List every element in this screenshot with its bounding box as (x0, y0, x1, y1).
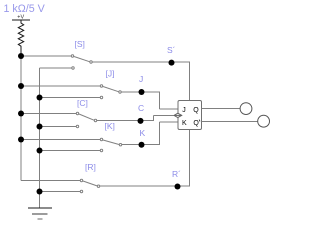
wire rail A (+V rail x=21) (20, 53, 22, 181)
svg-text:Q: Q (193, 107, 199, 114)
flip-flop clock diamond (174, 113, 182, 117)
wire C common to flip-flop clock (97, 116, 174, 121)
node: rail B junction J (37, 95, 43, 101)
wire K common to flip-flop K input (122, 122, 178, 145)
switch R blade (80, 179, 99, 192)
svg-text:K: K (182, 120, 187, 127)
svg-text:+V: +V (17, 14, 24, 20)
switch C blade (76, 112, 96, 127)
svg-text:C: C (138, 103, 144, 113)
svg-text:R´: R´ (172, 169, 181, 179)
probe Q (indicator circle) (240, 103, 252, 115)
node J (139, 89, 145, 95)
switch R upper wire (from rail A corner) (21, 180, 80, 182)
node C (138, 118, 144, 124)
switch C upper wire (21, 113, 76, 115)
switch K upper wire (21, 139, 100, 141)
wire rail B (ground rail x=39.5) (39, 68, 41, 208)
switch K lower wire (40, 150, 101, 152)
power +V supply (12, 19, 30, 21)
svg-text:J: J (139, 74, 143, 84)
svg-text:1 kΩ/5 V: 1 kΩ/5 V (4, 3, 46, 15)
switch J blade (100, 85, 121, 99)
svg-text:Q: Q (193, 120, 199, 127)
node: rail A junction C (18, 111, 24, 117)
switch S blade (71, 55, 92, 69)
switch S upper wire (21, 55, 71, 57)
svg-text:[J]: [J] (106, 69, 115, 79)
wire J common to flip-flop J input (122, 92, 179, 109)
svg-text:[K]: [K] (105, 121, 115, 131)
resistor R1 1kOhm (18, 20, 23, 53)
switch K blade (100, 138, 121, 151)
flip-flop U1 JK box (178, 101, 202, 130)
wire Q output (202, 108, 241, 110)
wire S common to S' node (93, 62, 191, 101)
node R' (175, 184, 181, 190)
node K (139, 142, 145, 148)
svg-text:S´: S´ (167, 45, 176, 55)
node: rail A junction S (18, 53, 24, 59)
svg-text:J: J (182, 107, 186, 114)
node S' (169, 60, 175, 66)
wire Q' output (202, 120, 258, 122)
switch S lower wire (40, 67, 72, 69)
ground (28, 208, 52, 219)
switch J lower wire (40, 97, 101, 99)
switch J upper wire (21, 85, 100, 87)
node: rail A junction J (18, 83, 24, 89)
node: rail A junction K (18, 137, 24, 143)
probe Q' (indicator circle) (258, 115, 270, 127)
svg-text:K: K (140, 128, 146, 138)
svg-text:[C]: [C] (77, 98, 88, 108)
node: rail B junction K (37, 148, 43, 154)
switch C lower wire (40, 126, 77, 128)
wire R common to R' node and flip-flop reset (100, 130, 190, 187)
switch R lower wire (40, 191, 81, 193)
svg-text:[S]: [S] (75, 39, 85, 49)
svg-text:[R]: [R] (85, 162, 96, 172)
node: rail B junction C (37, 124, 43, 130)
node: rail B junction R (37, 189, 43, 195)
